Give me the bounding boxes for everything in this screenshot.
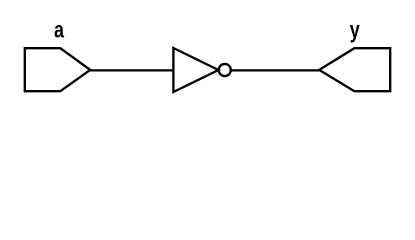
- wire inverter to output y: [232, 69, 320, 71]
- svg-text:y: y: [350, 18, 360, 44]
- label a: [54, 18, 64, 44]
- svg-text:a: a: [54, 18, 64, 44]
- label y: [350, 18, 360, 44]
- inverter bubble: [219, 64, 231, 76]
- wire input a to inverter: [89, 69, 173, 71]
- output port y (pentagon): [319, 48, 390, 91]
- inverter U1 (triangle): [173, 48, 218, 92]
- input port a (pentagon): [25, 48, 90, 91]
